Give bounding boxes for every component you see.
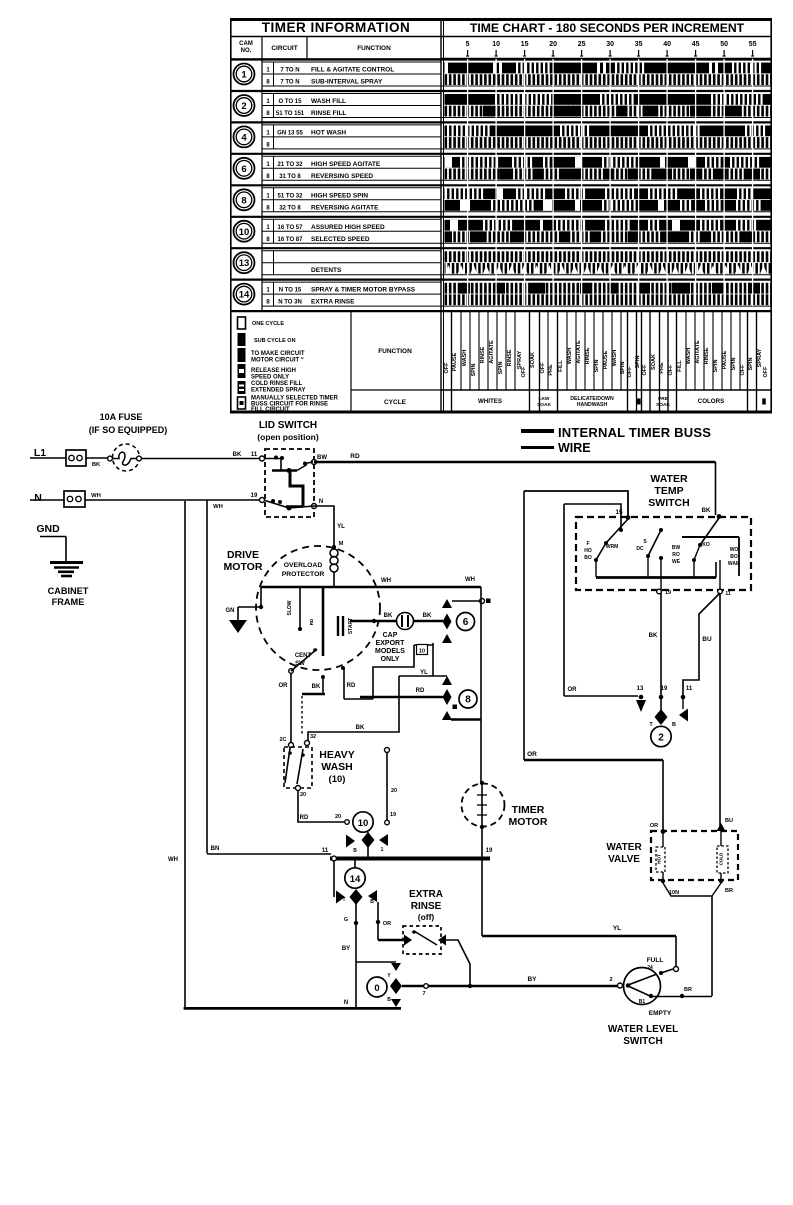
svg-text:6: 6 xyxy=(241,164,246,175)
svg-text:TIME CHART - 180 SECONDS PER I: TIME CHART - 180 SECONDS PER INCREMENT xyxy=(470,21,745,35)
svg-text:WH: WH xyxy=(465,577,475,583)
svg-text:19: 19 xyxy=(390,812,396,818)
svg-text:N TO 15: N TO 15 xyxy=(279,288,302,294)
svg-text:20: 20 xyxy=(335,814,341,820)
svg-text:SPIN: SPIN xyxy=(635,356,641,369)
svg-text:SPRAY: SPRAY xyxy=(757,348,763,367)
svg-text:RINSE: RINSE xyxy=(704,347,710,364)
svg-text:5: 5 xyxy=(466,41,470,48)
svg-text:51 TO 151: 51 TO 151 xyxy=(276,111,305,117)
svg-text:OR: OR xyxy=(383,921,391,927)
svg-text:2: 2 xyxy=(658,733,664,744)
svg-text:SOAK: SOAK xyxy=(537,402,551,408)
svg-text:MODELS: MODELS xyxy=(375,648,405,655)
svg-text:█: █ xyxy=(637,398,641,405)
svg-text:WIRE: WIRE xyxy=(558,441,591,455)
svg-text:BW: BW xyxy=(317,455,327,461)
svg-text:OR: OR xyxy=(527,751,537,758)
svg-text:SOAK: SOAK xyxy=(656,402,670,408)
svg-text:RD: RD xyxy=(416,688,425,694)
svg-text:FILL & AGITATE CONTROL: FILL & AGITATE CONTROL xyxy=(311,67,394,74)
svg-text:7: 7 xyxy=(422,991,425,997)
svg-text:YL: YL xyxy=(420,670,428,676)
svg-text:SLOW: SLOW xyxy=(287,600,293,615)
svg-text:SPIN: SPIN xyxy=(620,362,626,375)
svg-text:HANDWASH: HANDWASH xyxy=(577,402,608,408)
svg-text:BK: BK xyxy=(702,508,711,514)
svg-text:BW: BW xyxy=(672,545,681,551)
svg-text:19: 19 xyxy=(486,848,493,854)
svg-text:MOTOR CIRCUIT “: MOTOR CIRCUIT “ xyxy=(251,358,304,364)
svg-text:OFF: OFF xyxy=(763,366,769,378)
svg-text:19: 19 xyxy=(665,590,671,596)
svg-text:SPIN: SPIN xyxy=(731,358,737,371)
svg-text:2: 2 xyxy=(241,101,246,112)
svg-text:SPEED ONLY: SPEED ONLY xyxy=(251,375,289,381)
svg-text:TIMER INFORMATION: TIMER INFORMATION xyxy=(262,20,410,35)
svg-text:SPIN: SPIN xyxy=(748,358,754,371)
svg-text:YL: YL xyxy=(613,925,621,932)
svg-text:PROTECTOR: PROTECTOR xyxy=(282,571,325,578)
svg-text:DRIVE: DRIVE xyxy=(227,549,259,561)
svg-text:DETENTS: DETENTS xyxy=(311,267,342,274)
svg-text:F: F xyxy=(586,541,589,547)
svg-text:10: 10 xyxy=(419,649,425,655)
svg-text:4: 4 xyxy=(241,132,247,143)
svg-text:WHITES: WHITES xyxy=(478,398,502,405)
svg-text:HIGH SPEED SPIN: HIGH SPEED SPIN xyxy=(311,192,368,199)
svg-text:SOAK: SOAK xyxy=(651,354,657,370)
svg-text:SPRAY & TIMER MOTOR BYPASS: SPRAY & TIMER MOTOR BYPASS xyxy=(311,287,416,294)
svg-text:51 TO 32: 51 TO 32 xyxy=(278,193,304,199)
svg-text:8: 8 xyxy=(465,695,471,706)
svg-text:COLD RINSE FILL: COLD RINSE FILL xyxy=(251,381,303,387)
svg-text:35: 35 xyxy=(635,41,643,48)
svg-text:30: 30 xyxy=(606,41,614,48)
svg-text:CYCLE: CYCLE xyxy=(384,399,407,406)
svg-text:LKW: LKW xyxy=(539,396,550,402)
svg-text:MOTOR: MOTOR xyxy=(509,816,548,828)
svg-text:PAUSE: PAUSE xyxy=(603,350,609,369)
svg-text:OR: OR xyxy=(568,687,578,693)
svg-text:13: 13 xyxy=(239,258,250,269)
svg-text:SELECTED SPEED: SELECTED SPEED xyxy=(311,236,370,243)
svg-text:WASH: WASH xyxy=(612,350,618,367)
svg-text:OR: OR xyxy=(650,823,658,829)
svg-text:19: 19 xyxy=(251,493,258,499)
svg-text:8: 8 xyxy=(241,195,246,206)
svg-text:PAUSE: PAUSE xyxy=(452,352,458,371)
svg-text:15: 15 xyxy=(521,41,529,48)
svg-text:REVERSING SPEED: REVERSING SPEED xyxy=(311,173,373,180)
svg-text:ASSURED HIGH SPEED: ASSURED HIGH SPEED xyxy=(311,224,385,231)
svg-text:(IF SO EQUIPPED): (IF SO EQUIPPED) xyxy=(89,425,168,435)
svg-text:N TO 3N: N TO 3N xyxy=(278,300,302,306)
svg-text:SUB CYCLE ON: SUB CYCLE ON xyxy=(254,338,296,344)
svg-text:WASH: WASH xyxy=(567,348,573,365)
svg-text:N: N xyxy=(319,499,323,505)
svg-text:OR: OR xyxy=(279,683,289,689)
svg-text:SPIN: SPIN xyxy=(713,360,719,373)
svg-text:7 TO N: 7 TO N xyxy=(280,68,299,74)
svg-text:RINSE: RINSE xyxy=(411,901,442,912)
svg-text:TEMP: TEMP xyxy=(654,485,683,497)
svg-text:T: T xyxy=(342,897,345,903)
svg-text:WATER LEVEL: WATER LEVEL xyxy=(608,1024,678,1035)
svg-text:GN: GN xyxy=(226,608,235,614)
svg-text:WH: WH xyxy=(168,857,178,863)
svg-text:BK: BK xyxy=(423,613,432,619)
svg-text:HEAVY: HEAVY xyxy=(319,749,354,761)
svg-text:PRE: PRE xyxy=(548,364,554,376)
svg-text:RINSE: RINSE xyxy=(585,347,591,364)
svg-text:G: G xyxy=(344,917,348,923)
svg-text:BK: BK xyxy=(384,613,393,619)
svg-text:FILL: FILL xyxy=(677,360,683,372)
svg-text:REVERSING AGITATE: REVERSING AGITATE xyxy=(311,204,379,211)
svg-text:16 TO 87: 16 TO 87 xyxy=(278,237,304,243)
svg-text:WASH: WASH xyxy=(321,761,353,773)
svg-text:BR: BR xyxy=(725,888,733,894)
svg-text:WATER: WATER xyxy=(606,842,642,853)
svg-text:WRM: WRM xyxy=(606,544,619,550)
svg-text:14: 14 xyxy=(239,290,250,301)
svg-text:M: M xyxy=(339,541,344,547)
svg-text:BN: BN xyxy=(211,846,220,852)
svg-text:BO: BO xyxy=(730,554,738,560)
svg-text:BU: BU xyxy=(725,818,733,824)
svg-text:B: B xyxy=(353,848,357,854)
svg-text:20: 20 xyxy=(549,41,557,48)
svg-text:10: 10 xyxy=(358,818,369,829)
svg-text:B: B xyxy=(370,899,374,905)
svg-text:EXPORT: EXPORT xyxy=(376,640,406,647)
svg-text:7 TO N: 7 TO N xyxy=(280,80,299,86)
svg-text:10A FUSE: 10A FUSE xyxy=(100,412,143,422)
svg-text:19: 19 xyxy=(661,686,668,692)
svg-text:COLORS: COLORS xyxy=(698,398,724,405)
svg-text:WH: WH xyxy=(213,504,223,510)
svg-text:RO: RO xyxy=(672,552,680,558)
svg-text:TO MAKE CIRCUIT: TO MAKE CIRCUIT xyxy=(251,351,305,357)
svg-text:40: 40 xyxy=(663,41,671,48)
svg-text:CAP: CAP xyxy=(383,632,398,639)
svg-text:EXTRA RINSE: EXTRA RINSE xyxy=(311,299,355,306)
svg-text:DC: DC xyxy=(636,546,644,552)
svg-text:31 TO 8: 31 TO 8 xyxy=(279,174,301,180)
svg-text:55: 55 xyxy=(749,41,757,48)
svg-text:11: 11 xyxy=(686,686,693,692)
svg-text:FILL CIRCUIT: FILL CIRCUIT xyxy=(251,407,290,413)
svg-text:FRAME: FRAME xyxy=(52,597,85,607)
svg-text:GND: GND xyxy=(36,523,60,535)
svg-text:SUB-INTERVAL SPRAY: SUB-INTERVAL SPRAY xyxy=(311,79,383,86)
svg-text:WASH: WASH xyxy=(686,348,692,365)
svg-text:EXTENDED SPRAY: EXTENDED SPRAY xyxy=(251,388,305,394)
svg-text:O TO 15: O TO 15 xyxy=(279,99,303,105)
svg-text:50: 50 xyxy=(720,41,728,48)
svg-text:BR: BR xyxy=(684,987,692,993)
svg-text:COLD: COLD xyxy=(719,852,724,865)
svg-text:11: 11 xyxy=(251,452,258,458)
svg-text:20: 20 xyxy=(391,788,397,794)
svg-text:WH: WH xyxy=(381,578,391,584)
svg-text:PAUSE: PAUSE xyxy=(722,350,728,369)
svg-text:16 TO 57: 16 TO 57 xyxy=(278,225,304,231)
svg-text:MOTOR: MOTOR xyxy=(224,561,263,573)
svg-text:EMPTY: EMPTY xyxy=(649,1010,672,1017)
svg-text:2: 2 xyxy=(609,977,612,983)
svg-text:1: 1 xyxy=(381,847,384,853)
svg-text:WASH: WASH xyxy=(462,350,468,367)
svg-text:SPIN: SPIN xyxy=(594,360,600,373)
svg-text:RD: RD xyxy=(347,683,356,689)
svg-text:INTERNAL TIMER BUSS: INTERNAL TIMER BUSS xyxy=(558,425,711,440)
svg-text:WE: WE xyxy=(672,559,681,565)
svg-text:HIGH SPEED AGITATE: HIGH SPEED AGITATE xyxy=(311,161,381,168)
svg-text:SPIN: SPIN xyxy=(498,362,504,375)
svg-text:ONLY: ONLY xyxy=(381,656,400,663)
svg-text:BU: BU xyxy=(702,636,712,643)
svg-text:RINSE FILL: RINSE FILL xyxy=(311,110,346,117)
svg-text:(off): (off) xyxy=(418,912,435,922)
svg-text:RD: RD xyxy=(309,618,314,625)
svg-text:BY: BY xyxy=(527,976,537,983)
svg-text:HO: HO xyxy=(584,548,592,554)
svg-text:OFF: OFF xyxy=(627,366,633,378)
svg-text:CAM: CAM xyxy=(239,41,253,47)
svg-text:WH: WH xyxy=(91,493,101,499)
svg-text:45: 45 xyxy=(692,41,700,48)
svg-text:HOT WASH: HOT WASH xyxy=(311,129,346,136)
svg-text:11: 11 xyxy=(725,591,731,597)
svg-text:HOT: HOT xyxy=(657,854,662,864)
svg-text:SPIN: SPIN xyxy=(471,364,477,377)
svg-text:SOAK: SOAK xyxy=(530,352,536,368)
svg-text:10: 10 xyxy=(492,41,500,48)
svg-text:OFF: OFF xyxy=(642,364,648,376)
svg-text:20: 20 xyxy=(300,792,306,798)
svg-text:1: 1 xyxy=(241,70,247,81)
svg-text:13: 13 xyxy=(637,686,644,692)
svg-text:YL: YL xyxy=(337,524,345,530)
svg-text:PRE: PRE xyxy=(658,396,669,402)
svg-text:OFF: OFF xyxy=(444,362,450,374)
svg-text:(10): (10) xyxy=(329,774,346,785)
svg-text:█: █ xyxy=(762,398,766,405)
svg-text:FULL: FULL xyxy=(647,957,664,964)
svg-text:FILL: FILL xyxy=(558,360,564,372)
svg-text:BK: BK xyxy=(312,684,321,690)
svg-text:AGITATE: AGITATE xyxy=(489,340,495,364)
svg-text:OFF: OFF xyxy=(540,362,546,374)
svg-text:32 TO 8: 32 TO 8 xyxy=(279,205,301,211)
svg-text:BK: BK xyxy=(233,452,242,458)
svg-text:BK: BK xyxy=(356,725,365,731)
svg-text:RINSE: RINSE xyxy=(507,349,513,366)
svg-text:RINSE: RINSE xyxy=(480,346,486,363)
svg-text:WATER: WATER xyxy=(650,473,688,485)
svg-text:21 TO 32: 21 TO 32 xyxy=(278,162,304,168)
svg-text:BK: BK xyxy=(649,633,658,639)
svg-text:AGITATE: AGITATE xyxy=(695,340,701,364)
svg-text:2C: 2C xyxy=(279,737,286,743)
svg-text:CABINET: CABINET xyxy=(48,586,89,596)
svg-text:OFF: OFF xyxy=(740,364,746,376)
svg-text:B: B xyxy=(672,722,676,728)
svg-text:SWITCH: SWITCH xyxy=(648,497,689,509)
svg-text:LID SWITCH: LID SWITCH xyxy=(259,420,317,431)
svg-text:AGITATE: AGITATE xyxy=(576,340,582,364)
svg-text:15: 15 xyxy=(615,509,623,516)
svg-text:11: 11 xyxy=(322,848,329,854)
svg-text:NO.: NO. xyxy=(241,48,252,54)
svg-text:WO: WO xyxy=(730,547,739,553)
svg-text:TIMER: TIMER xyxy=(512,804,545,816)
svg-text:RELEASE HIGH: RELEASE HIGH xyxy=(251,368,296,374)
svg-text:VALVE: VALVE xyxy=(608,854,640,865)
svg-text:N: N xyxy=(344,1000,348,1006)
svg-text:B: B xyxy=(387,997,391,1003)
svg-text:B1: B1 xyxy=(639,999,646,1005)
svg-text:BK: BK xyxy=(92,462,101,468)
svg-text:14: 14 xyxy=(350,874,361,885)
svg-text:CIRCUIT: CIRCUIT xyxy=(271,45,297,52)
svg-text:OFF: OFF xyxy=(521,366,527,378)
svg-text:OFF: OFF xyxy=(668,364,674,376)
svg-text:ONE CYCLE: ONE CYCLE xyxy=(252,321,284,327)
svg-text:0: 0 xyxy=(374,983,379,994)
svg-text:32: 32 xyxy=(310,734,316,740)
svg-text:RD: RD xyxy=(300,815,309,821)
svg-text:SWITCH: SWITCH xyxy=(623,1036,662,1047)
svg-text:N: N xyxy=(34,492,42,504)
svg-text:PRE: PRE xyxy=(659,362,665,374)
svg-text:25: 25 xyxy=(578,41,586,48)
svg-text:FUNCTION: FUNCTION xyxy=(378,348,412,355)
svg-text:BY: BY xyxy=(342,946,350,952)
svg-text:OVERLOAD: OVERLOAD xyxy=(284,562,323,569)
svg-text:SPRAY: SPRAY xyxy=(517,350,523,369)
svg-text:KO: KO xyxy=(702,542,710,548)
svg-text:6: 6 xyxy=(463,617,469,628)
svg-text:WASH FILL: WASH FILL xyxy=(311,98,346,105)
svg-text:10: 10 xyxy=(239,227,250,238)
svg-text:RD: RD xyxy=(350,453,360,460)
svg-text:BO: BO xyxy=(584,555,592,561)
svg-text:24: 24 xyxy=(647,965,653,971)
svg-text:FUNCTION: FUNCTION xyxy=(357,45,391,52)
svg-text:GN 13 55: GN 13 55 xyxy=(277,130,303,136)
svg-text:(open position): (open position) xyxy=(257,432,319,442)
svg-text:EXTRA: EXTRA xyxy=(409,889,443,900)
